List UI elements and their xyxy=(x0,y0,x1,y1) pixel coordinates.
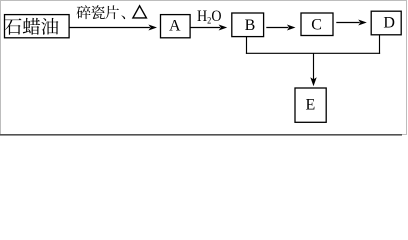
heat triangle symbol xyxy=(133,6,147,18)
connector line from B down xyxy=(246,37,248,54)
arrow C to D xyxy=(336,20,367,26)
box B xyxy=(232,13,264,37)
arrow A to B xyxy=(190,25,227,31)
box paraffin-oil xyxy=(5,15,70,38)
text char 石 xyxy=(4,18,21,34)
arrow down to E xyxy=(310,54,316,87)
box A xyxy=(161,15,191,38)
arrow paraffin-oil to A xyxy=(69,25,157,31)
svg-text:B: B xyxy=(245,17,256,34)
box D xyxy=(371,11,401,35)
text char 蜡 xyxy=(23,18,40,35)
label char 碎 xyxy=(77,5,91,19)
label char 瓷 xyxy=(91,5,105,19)
label char 、 xyxy=(121,15,125,19)
connector line from D down xyxy=(379,35,381,54)
box C xyxy=(301,13,333,36)
horizontal bracket line xyxy=(246,52,380,54)
svg-text:E: E xyxy=(306,97,316,114)
outer frame xyxy=(0,1,407,135)
svg-text:H2O: H2O xyxy=(197,8,222,27)
svg-text:C: C xyxy=(311,16,322,33)
text char 油 xyxy=(41,18,58,35)
label char 片 xyxy=(105,5,119,19)
svg-text:D: D xyxy=(383,14,395,31)
box E xyxy=(295,88,326,122)
svg-text:A: A xyxy=(169,18,181,35)
arrow B to C xyxy=(266,25,295,31)
